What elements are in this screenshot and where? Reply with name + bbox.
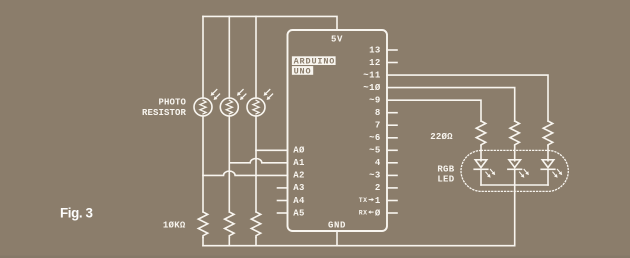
svg-text:7: 7 (375, 121, 381, 131)
svg-text:~6: ~6 (369, 133, 381, 143)
wire pin10 to LED column 2 (387, 88, 515, 121)
svg-text:4: 4 (375, 158, 381, 168)
label ARDUINO (292, 56, 336, 66)
wire resistor1 to LED1 (480, 146, 482, 161)
svg-text:~3: ~3 (369, 171, 381, 181)
wire branch2 top (228, 16, 230, 98)
svg-text:RX: RX (359, 209, 368, 216)
wire resistor3 to LED3 (547, 146, 549, 161)
svg-text:RESISTOR: RESISTOR (142, 108, 187, 118)
pin label RX 0 (359, 208, 381, 218)
wire branch3 top (255, 16, 257, 98)
svg-text:TX: TX (359, 197, 368, 204)
photo resistor PR2 (220, 90, 246, 117)
svg-text:A3: A3 (293, 183, 305, 193)
LED D3 (541, 160, 562, 178)
svg-text:5V: 5V (331, 34, 343, 44)
svg-text:AØ: AØ (293, 146, 305, 156)
label RGB LED (437, 165, 454, 185)
wire pin9 to LED column 1 (387, 100, 481, 121)
pin tick 7 (387, 124, 397, 126)
wire pin11 to LED column 3 (387, 75, 548, 121)
pin tick 2 (387, 187, 397, 189)
wire LED common bar (481, 184, 548, 186)
pin tick 4 (387, 162, 397, 164)
pin tick 0 (387, 212, 397, 214)
pin tick 5 (387, 149, 397, 151)
resistor 220 #1 (476, 121, 485, 146)
svg-text:~11: ~11 (363, 70, 381, 80)
wire branch1 top (202, 16, 204, 98)
RGB LED dotted outline (461, 150, 568, 191)
pin tick 6 (387, 137, 397, 139)
svg-text:22ØΩ: 22ØΩ (430, 132, 453, 142)
svg-text:1ØKΩ: 1ØKΩ (163, 220, 186, 230)
svg-text:A4: A4 (293, 196, 305, 206)
pin tick A3 (278, 187, 288, 189)
pin tick 1 (387, 200, 397, 202)
LED D1 (474, 160, 495, 178)
resistor 220 #3 (543, 121, 552, 146)
pin tick 12 (387, 62, 397, 64)
bottom shade (0, 256, 630, 258)
resistor 10K #3 (251, 212, 260, 238)
wire LED3 cathode down (547, 170, 549, 185)
svg-text:~1Ø: ~1Ø (363, 83, 381, 93)
wire branch1 bottom (202, 238, 204, 246)
svg-text:2: 2 (375, 183, 381, 193)
svg-text:Ø: Ø (375, 208, 381, 218)
svg-text:A1: A1 (293, 158, 305, 168)
wire 5V rail top (203, 16, 337, 30)
wire branch2 bottom (228, 238, 230, 246)
photo resistor PR1 (194, 90, 220, 117)
pin tick 8 (387, 112, 397, 114)
wire GND stem (336, 231, 338, 246)
svg-text:Fig. 3: Fig. 3 (60, 206, 93, 221)
arduino U1 box (288, 30, 388, 231)
pin tick 13 (387, 49, 397, 51)
svg-text:12: 12 (369, 58, 381, 68)
resistor 220 #2 (510, 121, 519, 146)
svg-text:8: 8 (375, 108, 381, 118)
svg-text:LED: LED (437, 174, 454, 184)
svg-text:13: 13 (369, 45, 381, 55)
wire branch3 middle (255, 116, 257, 212)
wire resistor2 to LED2 (514, 146, 516, 161)
svg-text:A5: A5 (293, 208, 305, 218)
resistor 10K #1 (198, 212, 207, 238)
LED D2 (508, 160, 529, 178)
svg-text:~5: ~5 (369, 146, 381, 156)
label UNO (292, 66, 313, 76)
wire ground rail bottom (203, 245, 515, 247)
svg-text:UNO: UNO (294, 66, 312, 76)
svg-text:A2: A2 (293, 171, 305, 181)
pin tick A5 (278, 212, 288, 214)
wire branch2 middle (228, 116, 230, 212)
svg-text:ARDUINO: ARDUINO (294, 57, 336, 67)
wire branch3 bottom (255, 238, 257, 246)
resistor 10K #2 (225, 212, 234, 238)
svg-text:1: 1 (375, 196, 381, 206)
pin tick A4 (278, 200, 288, 202)
wire LED2 cathode down (514, 170, 516, 185)
pin label TX 1 (359, 196, 381, 206)
label PHOTO RESISTOR (142, 98, 187, 118)
photo resistor PR3 (247, 90, 273, 117)
wire A1 with hop (229, 159, 287, 163)
pin tick 3 (387, 174, 397, 176)
svg-text:RGB: RGB (437, 165, 454, 175)
svg-text:~9: ~9 (369, 96, 381, 106)
svg-text:GND: GND (328, 220, 346, 230)
wire LED common stem (514, 185, 516, 246)
wire LED1 cathode down (480, 170, 482, 185)
svg-text:PHOTO: PHOTO (158, 98, 186, 108)
wire A0 (256, 149, 288, 151)
wire branch1 middle (202, 116, 204, 212)
wire A2 with hop (203, 171, 288, 175)
